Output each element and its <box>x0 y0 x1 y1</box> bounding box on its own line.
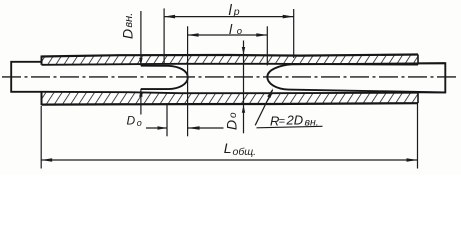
jacket bottom wall right face <box>417 93 419 104</box>
right sleeve rounded nose <box>267 64 291 89</box>
dimension D_o left: extension line <box>166 105 168 136</box>
jacket top wall hatching <box>42 55 419 65</box>
jacket top wall left face <box>41 56 43 65</box>
dimension D_vn upper line with down arrowhead <box>140 11 142 66</box>
svg-text:p: p <box>233 6 240 18</box>
jacket top wall right face <box>417 55 419 65</box>
dimension l_o right arrowhead <box>256 33 267 37</box>
jacket bottom wall inner edge <box>42 92 419 93</box>
svg-text:o: o <box>228 112 239 118</box>
jacket top wall inner edge <box>42 64 419 65</box>
svg-text:L: L <box>224 140 232 156</box>
svg-text:общ.: общ. <box>233 146 257 158</box>
jacket top wall outer edge <box>42 55 419 57</box>
dimension l_o right extension line <box>266 26 268 65</box>
dimension L_obsh line <box>41 159 417 161</box>
jacket bottom wall left face <box>41 92 43 105</box>
L_obsh right arrowhead <box>407 158 418 162</box>
dimension l_o line <box>188 34 268 36</box>
svg-text:o: o <box>137 118 142 128</box>
L_obsh left arrowhead <box>41 158 52 162</box>
svg-text:D: D <box>119 29 135 39</box>
leader line for R callout <box>255 90 272 125</box>
dimension l_p extension line left <box>163 8 165 63</box>
dimension l_p line <box>164 16 294 18</box>
svg-text:D: D <box>127 114 136 128</box>
dimension l_o left arrowhead <box>188 33 199 37</box>
dimension D_o left: left segment with right arrowhead <box>146 127 167 129</box>
dimension l_p extension line right <box>293 9 295 58</box>
D_o center down arrowhead <box>242 47 245 55</box>
svg-text:2D: 2D <box>286 113 304 128</box>
leader arrowhead <box>267 88 273 98</box>
left sleeve bore lines with rounded nose <box>141 66 188 89</box>
D_o center up arrowhead <box>242 105 245 113</box>
right pipe stub <box>418 63 445 92</box>
dimension D_o center vertical line <box>243 41 245 134</box>
svg-text:=: = <box>279 115 286 127</box>
dimension L_obsh left extension line <box>40 106 42 169</box>
dimension D_o left: right segment with left arrowhead <box>188 127 224 129</box>
underline of R label <box>257 126 323 128</box>
centerline <box>2 76 458 78</box>
dimension l_p right arrowhead <box>283 15 294 19</box>
svg-text:вн.: вн. <box>123 13 135 28</box>
svg-text:D: D <box>223 120 239 130</box>
dimension L_obsh right extension line <box>417 104 419 169</box>
jacket bottom wall outer edge <box>42 103 419 104</box>
svg-text:o: o <box>237 26 242 37</box>
dimension D_vn lower line with up arrowhead <box>140 89 142 115</box>
right sleeve top line <box>292 63 446 64</box>
dimension l_o long left extension line <box>187 26 189 136</box>
jacket bottom wall hatching <box>42 92 419 105</box>
left pipe stub <box>11 62 41 92</box>
dimension l_p left arrowhead <box>164 15 175 19</box>
right sleeve bottom line <box>288 90 445 93</box>
